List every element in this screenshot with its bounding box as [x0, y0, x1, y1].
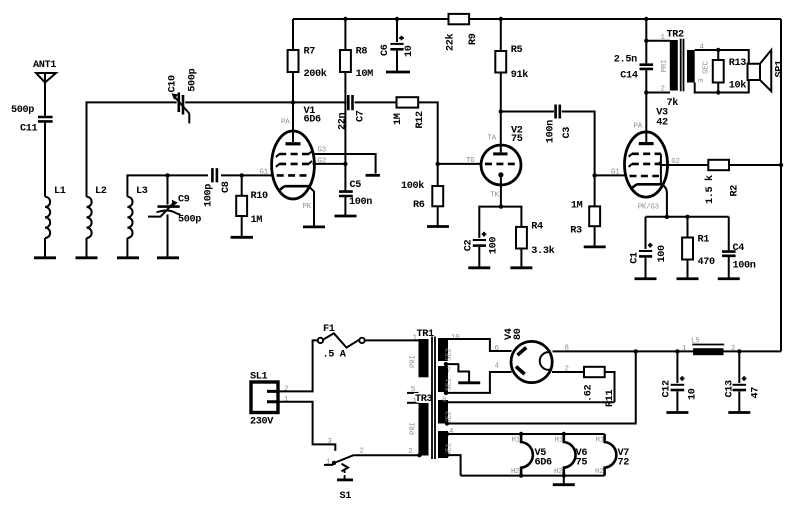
svg-text:100n: 100n: [349, 197, 372, 208]
svg-text:42: 42: [656, 118, 668, 129]
wire rail to C4: [728, 217, 730, 251]
svg-text:PK/G3: PK/G3: [638, 203, 659, 211]
resistor R10: [236, 191, 268, 226]
svg-text:75: 75: [511, 134, 523, 145]
heater V5 6D6: [511, 432, 552, 478]
ground R1: [677, 277, 699, 280]
svg-text:G1: G1: [260, 168, 269, 176]
wire top supply bus right segment: [469, 18, 781, 20]
heater V7 72: [595, 434, 629, 476]
wire TG line: [438, 163, 481, 165]
svg-text:C5: C5: [350, 180, 362, 191]
svg-text:R2: R2: [730, 185, 741, 197]
svg-text:2.5n: 2.5n: [614, 54, 637, 65]
svg-text:3: 3: [698, 79, 706, 83]
speaker SP1: [748, 50, 786, 91]
capacitor C4: [722, 243, 756, 272]
svg-text:100k: 100k: [401, 180, 424, 192]
wire R10 to ground: [241, 216, 243, 236]
ground C2: [468, 266, 490, 269]
fuse F1: [318, 324, 365, 361]
tube V1 6D6 pentode: [260, 102, 326, 226]
wire right bus: [780, 19, 782, 351]
transformer TR3 secondary winding lower: [438, 431, 448, 458]
svg-text:100p: 100p: [203, 184, 214, 207]
capacitor C11: [11, 105, 53, 135]
capacitor C13 polarized: [724, 376, 761, 398]
wire V1 G3 to ground bar: [314, 154, 376, 174]
svg-text:22n: 22n: [338, 112, 349, 130]
resistor R5: [495, 45, 528, 81]
svg-text:470: 470: [698, 257, 716, 268]
svg-text:100: 100: [489, 237, 500, 255]
svg-text:500p: 500p: [188, 68, 199, 91]
svg-text:C14: C14: [620, 71, 638, 82]
svg-text:2: 2: [661, 86, 665, 94]
wire pin7 to ground: [446, 364, 469, 382]
svg-text:TR2: TR2: [667, 29, 685, 40]
wire SL1 pin1 to S1: [279, 402, 336, 451]
svg-text:7: 7: [447, 368, 451, 376]
svg-text:1.5 k: 1.5 k: [704, 175, 716, 204]
svg-text:C8: C8: [221, 181, 232, 193]
svg-text:1M: 1M: [251, 215, 263, 226]
node C12 junction: [675, 349, 679, 353]
wire C6 to ground: [396, 51, 398, 71]
ground G3: [366, 174, 380, 177]
capacitor C7: [338, 95, 367, 130]
svg-text:TA: TA: [488, 135, 497, 143]
svg-text:2: 2: [565, 366, 569, 374]
transformer TR3 primary: [408, 397, 428, 456]
resistor R6: [401, 180, 443, 211]
ground C13: [728, 411, 750, 414]
svg-text:6D6: 6D6: [535, 457, 553, 468]
wire TR1 pin10 to V4 pin6: [448, 339, 512, 351]
svg-text:L3: L3: [136, 186, 148, 197]
wire heater H1 line: [447, 433, 605, 435]
wire C12 to ground: [676, 391, 678, 411]
svg-text:SE1: SE1: [445, 378, 453, 391]
wire plate node to C3: [501, 111, 554, 113]
node V3 G1 junction: [592, 173, 596, 177]
node TR2 bus junction: [644, 17, 648, 21]
svg-text:L5: L5: [691, 337, 699, 345]
resistor R2: [704, 160, 741, 204]
wire C12 down: [676, 351, 678, 383]
node R5 bus junction: [499, 17, 503, 21]
svg-text:10k: 10k: [729, 80, 747, 92]
svg-text:7k: 7k: [667, 97, 679, 109]
svg-text:10M: 10M: [356, 69, 374, 80]
capacitor C1 polarized: [629, 243, 668, 264]
node R1 junction: [685, 215, 689, 219]
wire TR2 pin 2: [646, 92, 670, 94]
svg-text:H2: H2: [554, 468, 562, 476]
svg-text:G1: G1: [611, 168, 620, 176]
ground R4: [510, 266, 532, 269]
capacitor C2 polarized: [463, 232, 499, 254]
wire TR3 pin6 to R11: [448, 401, 615, 403]
transformer TR2: [661, 29, 711, 109]
wire R8 top: [344, 19, 346, 50]
svg-text:22k: 22k: [445, 33, 457, 51]
ground R3: [584, 245, 606, 248]
svg-text:C2: C2: [463, 240, 474, 252]
ground L3: [117, 256, 139, 259]
svg-text:C11: C11: [20, 124, 38, 135]
svg-text:10: 10: [687, 388, 698, 400]
svg-text:500p: 500p: [178, 215, 201, 226]
wire V1 G2 to C5 node: [313, 163, 346, 165]
ground TR1 pin7: [458, 381, 480, 384]
node C6 bus junction: [395, 17, 399, 21]
svg-text:2: 2: [408, 448, 412, 456]
node TR3 pin2: [417, 453, 421, 457]
wire L1 to ground: [44, 238, 46, 257]
node G2 junction: [343, 162, 347, 166]
svg-text:H2: H2: [511, 468, 519, 476]
capacitor C5: [339, 180, 372, 208]
wire TR1 pin5 stub: [407, 392, 419, 394]
wire junction to C9: [167, 175, 169, 204]
wire R13 top lead: [717, 50, 719, 60]
wire L3 to ground: [126, 238, 128, 257]
wire R11 to TR3 pin6 line: [605, 372, 615, 402]
wire L2 to ground: [86, 238, 88, 257]
svg-text:80: 80: [513, 328, 524, 340]
svg-text:SEC: SEC: [703, 61, 711, 74]
svg-text:C3: C3: [562, 127, 573, 139]
svg-text:H1: H1: [555, 436, 564, 444]
variable capacitor C9: [148, 195, 201, 226]
resistor R1: [682, 234, 715, 268]
svg-text:100n: 100n: [546, 120, 557, 143]
svg-text:R6: R6: [413, 200, 425, 211]
wire C7 to R12: [355, 101, 397, 103]
variable capacitor C10: [168, 68, 199, 123]
svg-text:TK: TK: [490, 192, 499, 200]
antenna ANT1: [33, 60, 56, 83]
svg-text:PA: PA: [281, 118, 290, 126]
connector SL1 230V: [250, 371, 289, 427]
svg-text:R4: R4: [531, 221, 543, 232]
node heater H1 start: [445, 432, 449, 436]
capacitor C6 polarized: [380, 36, 415, 57]
wire TR2 pin 3 to R13 and speaker: [695, 80, 749, 93]
wire L3 top to grid line: [127, 175, 208, 196]
node C13 junction: [737, 349, 741, 353]
node B+ takeoff: [634, 349, 638, 353]
wire R5 top: [500, 19, 502, 51]
SECTION: power: [250, 324, 781, 502]
wire V4 pin8 to B+ rail: [553, 350, 782, 352]
ground L2: [76, 256, 98, 259]
ground V1 cathode: [303, 225, 325, 228]
wire C6 top: [396, 19, 398, 42]
transformer core TR1 TR3: [432, 337, 435, 460]
node V3 cathode junction: [665, 215, 669, 219]
wire junction to R6: [437, 164, 439, 186]
svg-text:PRI: PRI: [410, 355, 418, 368]
svg-text:100n: 100n: [733, 261, 756, 272]
node TR2 pin1 junction: [644, 39, 648, 43]
svg-text:C7: C7: [356, 110, 367, 122]
wire V6 H2 to ground: [563, 476, 565, 484]
svg-text:1M: 1M: [393, 113, 404, 125]
svg-text:1M: 1M: [571, 200, 583, 211]
svg-text:C1: C1: [629, 252, 640, 264]
wire R13 bottom lead: [717, 83, 719, 93]
SECTION: v1stage: [260, 14, 782, 227]
svg-text:8: 8: [565, 345, 569, 353]
svg-text:2: 2: [731, 345, 735, 353]
svg-text:500p: 500p: [11, 105, 34, 116]
svg-text:R9: R9: [468, 33, 479, 45]
svg-text:R10: R10: [251, 191, 269, 202]
node V2 plate junction: [499, 109, 503, 113]
svg-text:SE2: SE2: [445, 348, 453, 361]
wire C10 to V1 plate node: [185, 101, 293, 103]
wire R7 to plate node: [292, 72, 294, 102]
wire V3 G2 to R2: [662, 164, 708, 166]
wire R6 to ground: [437, 206, 439, 225]
svg-text:PK: PK: [303, 203, 312, 211]
svg-text:2: 2: [284, 386, 288, 394]
resistor R3: [570, 200, 600, 236]
resistor R8: [340, 47, 373, 81]
wire TR2 pin 4 to R13 and speaker: [695, 50, 749, 64]
tube V2 75 triode: [466, 126, 523, 207]
node TR3 winding bottom: [445, 453, 449, 457]
wire secondary bottom to V4 pin4: [446, 372, 512, 393]
transformer TR1 secondary winding lower: [438, 366, 448, 392]
ground C6: [386, 71, 410, 74]
svg-text:S1: S1: [340, 491, 352, 502]
wire R5 to V2 plate node: [500, 73, 502, 112]
svg-text:C13: C13: [724, 380, 735, 398]
svg-text:C10: C10: [168, 75, 179, 93]
svg-text:C9: C9: [178, 195, 190, 206]
svg-text:C12: C12: [661, 380, 672, 398]
node TG/R6 junction: [436, 162, 440, 166]
wire C9 to ground: [167, 215, 169, 257]
wire C11 to L1: [44, 123, 46, 197]
node R10 junction: [240, 173, 244, 177]
SECTION: input: [11, 60, 293, 258]
wire C1 to ground: [645, 258, 647, 278]
svg-text:R1: R1: [698, 234, 710, 245]
rectifier tube V4 80: [504, 328, 552, 382]
ground C12: [666, 411, 688, 414]
wire R3 to ground: [594, 226, 596, 246]
capacitor C14: [614, 54, 653, 81]
svg-text:200k: 200k: [304, 68, 327, 80]
resistor R12: [393, 97, 426, 128]
wire TK to C2: [479, 207, 501, 238]
svg-text:SL1: SL1: [250, 371, 268, 382]
inductor L5: [682, 337, 735, 355]
node right bus R2 junction: [779, 163, 783, 167]
wire C13 to ground: [738, 391, 740, 411]
node TR3 winding junction upper: [445, 421, 449, 425]
svg-text:R3: R3: [570, 226, 582, 237]
svg-text:3: 3: [328, 438, 332, 446]
inductor L2: [87, 186, 107, 238]
SECTION: v3stage: [611, 17, 785, 352]
node C9 junction: [165, 173, 169, 177]
wire R4 to ground: [520, 249, 522, 267]
capacitor C12 polarized: [661, 376, 698, 400]
wire C8 to R10 node and V1 G1: [221, 174, 273, 176]
resistor R13: [713, 58, 746, 92]
capacitor C8: [203, 168, 232, 207]
ground L1: [34, 256, 56, 259]
transformer TR3 secondary winding upper: [438, 400, 448, 424]
ground C5: [335, 215, 357, 218]
svg-text:H2: H2: [595, 468, 603, 476]
svg-text:R13: R13: [729, 58, 747, 69]
node TR2 pin2 junction: [644, 90, 648, 94]
wire C3 to V3 G1 node: [562, 112, 595, 176]
svg-text:C4: C4: [733, 243, 745, 254]
ground R6: [427, 225, 449, 228]
tube V3 42 pentode: [611, 107, 680, 217]
svg-text:.62: .62: [584, 384, 595, 402]
svg-text:6: 6: [495, 345, 499, 353]
node TR1 pin7: [444, 362, 448, 366]
svg-text:47: 47: [750, 387, 761, 399]
svg-text:6: 6: [442, 396, 446, 404]
wire TR2 pin 1: [646, 40, 670, 42]
svg-text:F1: F1: [323, 324, 335, 335]
wire SL1 pin2 to fuse: [279, 340, 318, 391]
wire TR3 winding to V4 pin8 node: [447, 351, 636, 423]
wire R7 top: [292, 19, 294, 50]
node R8 bus junction: [343, 17, 347, 21]
inductor L3: [127, 186, 147, 238]
wire S1 to TR3 pin2: [354, 454, 419, 456]
heater V6 75: [554, 432, 587, 478]
svg-text:6D6: 6D6: [304, 115, 322, 126]
svg-text:R12: R12: [415, 111, 426, 129]
svg-text:PRI: PRI: [409, 422, 417, 435]
wire C13 down: [738, 351, 740, 383]
SECTION: v2stage: [401, 17, 626, 268]
wire R1 top: [687, 217, 689, 238]
svg-text:ANT1: ANT1: [33, 60, 56, 71]
wire C2 to ground: [478, 247, 480, 267]
wire rail to C1: [645, 217, 647, 249]
svg-text:PA: PA: [634, 122, 643, 130]
ground heaters: [553, 483, 575, 486]
ground C4: [718, 277, 740, 280]
wire plate node down to V2 anode: [500, 112, 502, 153]
wire G1 node to V3: [595, 174, 626, 176]
wire cathode rail: [646, 216, 729, 218]
svg-text:91k: 91k: [511, 69, 529, 81]
transformer TR1 secondary winding upper: [438, 338, 448, 361]
ground R10: [231, 236, 254, 239]
wire L2 top to C10 line: [87, 102, 177, 196]
wire winding bottom to H2 line: [447, 455, 461, 476]
wire junction to R10: [241, 175, 243, 195]
wire TR3 pin1 stub: [407, 402, 419, 404]
wire TK to R4: [501, 207, 521, 227]
wire R8 down through C7 node to C5: [344, 72, 346, 191]
svg-text:R8: R8: [356, 47, 368, 58]
svg-text:R7: R7: [304, 47, 316, 58]
wire C5 to ground: [344, 196, 346, 215]
node V1 plate junction: [291, 100, 295, 104]
wire R2 to right bus: [729, 164, 781, 166]
svg-text:75: 75: [576, 457, 588, 468]
svg-text:100: 100: [657, 245, 668, 263]
svg-text:230V: 230V: [250, 416, 274, 427]
svg-text:3.3k: 3.3k: [531, 245, 554, 257]
resistor R9: [445, 14, 480, 51]
inductor L1: [45, 186, 66, 238]
resistor R4: [516, 221, 555, 257]
node R13 top: [716, 48, 720, 52]
svg-text:R5: R5: [511, 45, 523, 56]
wire top supply bus left segment: [293, 18, 449, 20]
switch S1: [324, 438, 364, 502]
ground C9: [157, 256, 179, 259]
svg-text:H1: H1: [596, 436, 605, 444]
wire heater H2 line: [461, 475, 605, 477]
svg-text:72: 72: [618, 457, 630, 468]
capacitor C3: [546, 105, 574, 144]
wire R1 to ground: [687, 260, 689, 278]
svg-text:L1: L1: [54, 186, 66, 197]
svg-text:PRI: PRI: [661, 60, 669, 73]
svg-text:TR3: TR3: [415, 394, 433, 405]
wire bus down to TR2/C14/V3: [645, 19, 647, 142]
svg-text:.5 A: .5 A: [323, 350, 347, 361]
wire G1 node to R3: [594, 175, 596, 206]
svg-text:C6: C6: [380, 44, 391, 56]
node R13 bottom: [716, 90, 720, 94]
svg-text:L2: L2: [95, 186, 107, 197]
node TK junction: [499, 204, 503, 208]
wire R12 to R6/TG node: [418, 102, 438, 163]
transformer TR1 primary: [410, 335, 429, 395]
wire C4 to ground: [728, 257, 730, 278]
wire V4 pin2 to R11: [552, 371, 584, 373]
wire plate node to C7: [293, 101, 347, 103]
wire antenna to C11: [44, 83, 46, 116]
node TR1 secondary bottom: [444, 391, 448, 395]
svg-text:H1: H1: [512, 436, 521, 444]
resistor R11: [584, 367, 617, 407]
svg-text:SP1: SP1: [774, 60, 785, 78]
ground S1: [337, 478, 353, 481]
svg-text:10: 10: [404, 45, 415, 57]
ground C1: [635, 277, 657, 280]
wire fuse to TR1 pin1: [365, 339, 419, 341]
resistor R7: [288, 47, 327, 81]
